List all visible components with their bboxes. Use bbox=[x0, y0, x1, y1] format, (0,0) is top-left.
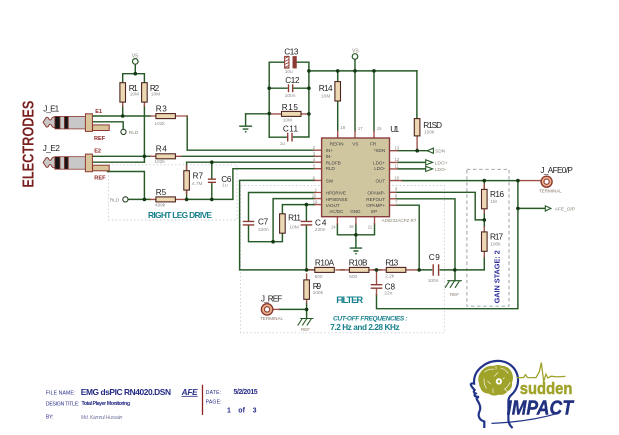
svg-text:R10B: R10B bbox=[349, 258, 368, 267]
svg-text:220n: 220n bbox=[315, 227, 326, 233]
svg-text:10M: 10M bbox=[283, 117, 292, 123]
svg-text:500: 500 bbox=[349, 274, 357, 280]
svg-text:J_E1: J_E1 bbox=[43, 105, 59, 114]
svg-text:FILTER: FILTER bbox=[336, 294, 363, 305]
svg-text:17: 17 bbox=[358, 126, 363, 131]
svg-text:GND: GND bbox=[350, 209, 361, 214]
svg-text:J_E2: J_E2 bbox=[43, 144, 61, 153]
svg-text:R2: R2 bbox=[150, 84, 160, 93]
svg-text:AC/DC: AC/DC bbox=[329, 209, 344, 214]
svg-text:REF: REF bbox=[301, 327, 310, 332]
svg-text:7.2 Hz and 2.28 KHz: 7.2 Hz and 2.28 KHz bbox=[330, 323, 399, 332]
svg-text:100n: 100n bbox=[428, 278, 439, 284]
svg-text:5: 5 bbox=[313, 164, 316, 169]
svg-text:sudden: sudden bbox=[520, 379, 573, 398]
svg-text:6: 6 bbox=[313, 175, 316, 180]
svg-text:R4: R4 bbox=[156, 145, 167, 154]
svg-text:R7: R7 bbox=[193, 172, 204, 181]
svg-text:21: 21 bbox=[368, 224, 373, 229]
svg-text:1u: 1u bbox=[280, 141, 286, 147]
svg-text:3: 3 bbox=[313, 151, 316, 156]
svg-text:2.2k: 2.2k bbox=[385, 273, 395, 279]
svg-text:5/2/2015: 5/2/2015 bbox=[234, 389, 258, 396]
svg-text:GAIN STAGE: 2: GAIN STAGE: 2 bbox=[494, 250, 501, 303]
svg-text:LDO-: LDO- bbox=[435, 167, 447, 173]
svg-text:REF: REF bbox=[94, 176, 106, 182]
svg-text:*SDN: *SDN bbox=[374, 148, 386, 153]
svg-text:C13: C13 bbox=[284, 47, 299, 56]
svg-text:Md. Kamrul Hussain: Md. Kamrul Hussain bbox=[81, 415, 123, 421]
svg-text:AFE_O/P: AFE_O/P bbox=[555, 207, 575, 213]
svg-text:20: 20 bbox=[312, 194, 317, 199]
svg-text:102k: 102k bbox=[154, 121, 165, 127]
svg-text:REF: REF bbox=[94, 136, 106, 142]
svg-text:C11: C11 bbox=[283, 124, 299, 133]
svg-text:100k: 100k bbox=[313, 290, 324, 296]
svg-text:E2: E2 bbox=[94, 149, 101, 155]
svg-text:10: 10 bbox=[395, 176, 400, 181]
svg-text:C4: C4 bbox=[315, 218, 327, 227]
svg-text:9: 9 bbox=[395, 187, 398, 192]
svg-text:100n: 100n bbox=[285, 93, 296, 99]
svg-text:VS: VS bbox=[352, 142, 358, 147]
svg-text:LDO+: LDO+ bbox=[373, 160, 385, 165]
svg-text:RLD: RLD bbox=[110, 197, 120, 203]
svg-text:15: 15 bbox=[377, 126, 382, 131]
svg-text:7: 7 bbox=[395, 200, 398, 205]
svg-text:16: 16 bbox=[349, 224, 354, 229]
svg-text:R14: R14 bbox=[319, 84, 333, 93]
svg-text:R16: R16 bbox=[490, 190, 504, 199]
svg-text:AFE: AFE bbox=[181, 388, 199, 397]
svg-text:CUT-OFF FREQUENCIES :: CUT-OFF FREQUENCIES : bbox=[333, 316, 408, 323]
svg-text:R5: R5 bbox=[156, 188, 167, 197]
svg-text:HPSENSE: HPSENSE bbox=[326, 197, 348, 202]
svg-text:13: 13 bbox=[395, 146, 400, 151]
svg-text:TERMINAL: TERMINAL bbox=[260, 316, 283, 321]
svg-text:FR: FR bbox=[370, 142, 377, 147]
svg-text:OPAMP-: OPAMP- bbox=[367, 191, 385, 196]
svg-text:RLD: RLD bbox=[129, 130, 139, 136]
svg-text:R3: R3 bbox=[156, 105, 167, 114]
svg-text:C12: C12 bbox=[285, 76, 300, 85]
svg-text:19: 19 bbox=[313, 200, 318, 205]
svg-text:1u: 1u bbox=[222, 183, 228, 189]
svg-text:REF: REF bbox=[450, 292, 459, 297]
svg-text:J_REF: J_REF bbox=[261, 295, 282, 304]
svg-text:SW: SW bbox=[326, 178, 334, 183]
svg-text:4: 4 bbox=[313, 157, 316, 162]
svg-text:C7: C7 bbox=[258, 218, 269, 227]
svg-text:1M: 1M bbox=[490, 199, 497, 205]
svg-text:R15: R15 bbox=[282, 103, 299, 112]
svg-text:of: of bbox=[238, 407, 245, 414]
svg-text:BY:: BY: bbox=[46, 415, 54, 421]
svg-text:C9: C9 bbox=[429, 253, 440, 262]
svg-text:AD8232ACPZ-R7: AD8232ACPZ-R7 bbox=[382, 218, 417, 223]
svg-text:10M: 10M bbox=[130, 92, 139, 98]
svg-text:1: 1 bbox=[315, 188, 318, 193]
svg-text:OPAMP+: OPAMP+ bbox=[366, 203, 385, 208]
svg-text:IAOUT: IAOUT bbox=[326, 203, 340, 208]
svg-text:E1: E1 bbox=[95, 109, 102, 115]
svg-text:EP: EP bbox=[371, 209, 377, 214]
svg-text:4.7M: 4.7M bbox=[192, 181, 203, 187]
svg-text:2: 2 bbox=[313, 145, 316, 150]
svg-text:100k: 100k bbox=[490, 242, 501, 248]
svg-text:500: 500 bbox=[315, 274, 323, 280]
svg-text:IN+: IN+ bbox=[326, 148, 334, 153]
svg-text:10u: 10u bbox=[285, 69, 293, 75]
svg-text:VS: VS bbox=[352, 49, 359, 55]
svg-text:22n: 22n bbox=[384, 291, 392, 297]
svg-text:ELECTRODES: ELECTRODES bbox=[20, 100, 37, 187]
svg-text:14: 14 bbox=[331, 224, 336, 229]
svg-text:R9: R9 bbox=[313, 282, 322, 291]
svg-text:R1: R1 bbox=[129, 84, 138, 93]
svg-text:R1SD: R1SD bbox=[423, 121, 442, 130]
svg-text:18: 18 bbox=[340, 125, 345, 130]
svg-text:10M: 10M bbox=[151, 92, 160, 98]
svg-text:DESIGN TITLE:: DESIGN TITLE: bbox=[46, 402, 80, 408]
svg-text:EMG dsPIC RN4020.DSN: EMG dsPIC RN4020.DSN bbox=[81, 387, 171, 397]
svg-text:3: 3 bbox=[253, 407, 257, 414]
svg-text:C8: C8 bbox=[385, 282, 396, 291]
svg-text:FILE NAME:: FILE NAME: bbox=[46, 391, 75, 397]
svg-text:VS: VS bbox=[132, 54, 139, 60]
svg-text:PAGE:: PAGE: bbox=[206, 400, 222, 406]
svg-text:LDO+: LDO+ bbox=[435, 161, 448, 167]
svg-text:SDN: SDN bbox=[435, 148, 446, 154]
svg-text:11: 11 bbox=[395, 164, 400, 169]
svg-text:R13: R13 bbox=[385, 258, 398, 267]
svg-text:1: 1 bbox=[227, 407, 231, 414]
svg-text:R10A: R10A bbox=[315, 258, 335, 267]
svg-text:10M: 10M bbox=[289, 224, 298, 230]
svg-text:DATE:: DATE: bbox=[206, 390, 222, 396]
svg-text:LDO-: LDO- bbox=[374, 166, 385, 171]
svg-text:TERMINAL: TERMINAL bbox=[539, 188, 562, 193]
svg-text:OUT: OUT bbox=[375, 178, 385, 183]
svg-text:REFIN: REFIN bbox=[330, 142, 344, 147]
svg-text:12: 12 bbox=[395, 157, 400, 162]
svg-text:J_AFE0/P: J_AFE0/P bbox=[540, 166, 573, 175]
svg-text:REFOUT: REFOUT bbox=[366, 197, 385, 202]
svg-text:102k: 102k bbox=[154, 159, 165, 165]
svg-text:R17: R17 bbox=[490, 233, 503, 242]
svg-text:RLD: RLD bbox=[326, 166, 336, 171]
svg-text:RIGHT LEG DRIVE: RIGHT LEG DRIVE bbox=[148, 210, 212, 220]
svg-text:Total Player Monitoring: Total Player Monitoring bbox=[82, 401, 131, 407]
svg-text:U1: U1 bbox=[390, 125, 399, 134]
svg-text:R11: R11 bbox=[288, 214, 301, 223]
svg-text:RLDFB: RLDFB bbox=[326, 160, 341, 165]
svg-text:HPDRIVE: HPDRIVE bbox=[326, 191, 346, 196]
svg-text:IMPACT: IMPACT bbox=[507, 397, 575, 419]
svg-text:IN-: IN- bbox=[326, 154, 333, 159]
svg-text:100k: 100k bbox=[424, 130, 435, 136]
svg-text:10M: 10M bbox=[321, 94, 330, 100]
svg-text:220n: 220n bbox=[258, 227, 269, 233]
svg-text:499k: 499k bbox=[155, 202, 166, 208]
svg-text:8: 8 bbox=[395, 193, 398, 198]
